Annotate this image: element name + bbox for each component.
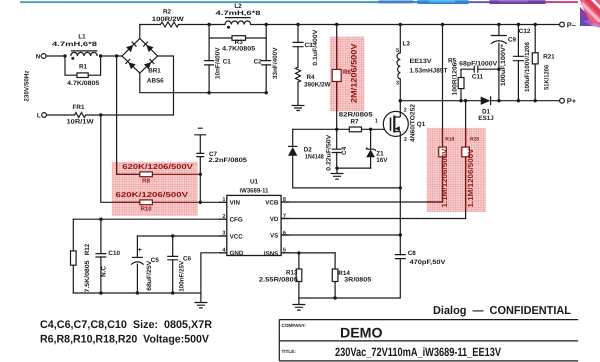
IC U1 iW3689-11 <box>219 195 289 255</box>
wire C9 branch <box>498 25 500 101</box>
svg-text:5: 5 <box>283 248 286 254</box>
wire R5 bottom stub <box>460 89 462 101</box>
wire R20 riser inside highlight <box>465 128 467 212</box>
svg-text:GND: GND <box>230 250 244 257</box>
wire VIN line <box>200 201 227 203</box>
IC pin numbers <box>222 197 286 254</box>
wire R10 to VIN node <box>152 201 200 203</box>
svg-text:VS: VS <box>270 232 278 239</box>
svg-text:3: 3 <box>404 137 407 143</box>
svg-text:16V: 16V <box>376 157 388 164</box>
svg-text:230Vac_72V110mA_iW3689-11_EE13: 230Vac_72V110mA_iW3689-11_EE13V <box>335 345 501 359</box>
svg-text:2.55R/0805: 2.55R/0805 <box>259 277 299 284</box>
svg-text:R2: R2 <box>163 9 172 16</box>
wire snubber top <box>461 69 499 77</box>
wire VS line <box>281 234 400 236</box>
earth symbol above C7 <box>194 128 206 135</box>
terminal P+ <box>560 98 565 103</box>
svg-text:R10: R10 <box>141 205 153 212</box>
wire R10 feed <box>101 115 140 202</box>
svg-text:1: 1 <box>375 119 378 125</box>
inductor L2 <box>225 18 251 29</box>
svg-text:100R/1206: 100R/1206 <box>451 62 458 96</box>
bridge diode top-right <box>146 45 153 52</box>
red highlight box R8/R10 <box>112 162 198 216</box>
ground symbol below C4/Z1 <box>331 168 344 179</box>
bridge diode bottom-right <box>144 62 151 69</box>
svg-text:8: 8 <box>283 197 286 203</box>
svg-text:1: 1 <box>222 197 225 203</box>
wire C2 branch <box>265 25 267 93</box>
svg-text:3: 3 <box>396 80 399 86</box>
capacitor C6 <box>167 256 178 259</box>
svg-text:R8: R8 <box>142 177 150 184</box>
terminal P- <box>560 22 565 27</box>
svg-text:iW3689-11: iW3689-11 <box>240 188 269 195</box>
svg-text:N.C: N.C <box>101 266 108 277</box>
resistor R1 <box>77 73 88 78</box>
svg-text:CFG: CFG <box>230 217 243 224</box>
wire D2 branch <box>293 129 401 188</box>
svg-text:4N60/TO252: 4N60/TO252 <box>409 103 416 142</box>
inductor L3 vertical <box>397 53 400 79</box>
svg-text:EE13V: EE13V <box>410 58 433 65</box>
title block <box>279 320 578 361</box>
wire L line <box>46 56 173 115</box>
wire L1 parallel branch <box>65 56 101 75</box>
svg-text:+: + <box>138 247 142 254</box>
wire GND line <box>201 253 227 293</box>
resistor R6 (highlighted) <box>332 69 341 81</box>
svg-text:2.2nF/0805: 2.2nF/0805 <box>209 157 248 164</box>
svg-text:0.1uF/400V: 0.1uF/400V <box>312 29 319 66</box>
wire R13 branch <box>298 253 300 298</box>
svg-text:1.53mHJ85T: 1.53mHJ85T <box>410 67 448 74</box>
wire C7 branch <box>199 136 201 203</box>
svg-text:6: 6 <box>283 230 286 236</box>
svg-text:C10: C10 <box>108 250 120 257</box>
svg-text:68uF/25V: 68uF/25V <box>146 260 153 291</box>
wire VD line <box>281 218 466 220</box>
wire C4 Z1 join <box>337 167 371 169</box>
wire Q1 source line <box>299 135 400 298</box>
svg-text:VD: VD <box>270 216 279 223</box>
svg-text:COMPANY:: COMPANY: <box>282 323 307 328</box>
svg-text:L2: L2 <box>234 3 242 10</box>
resistor R14 <box>332 269 338 282</box>
wire C1 branch <box>208 25 210 93</box>
svg-text:10R/1W: 10R/1W <box>67 119 94 126</box>
terminal N <box>41 54 46 59</box>
wire R12 branch <box>72 219 74 293</box>
svg-text:R12: R12 <box>84 243 91 255</box>
capacitor C5 electrolytic <box>131 257 144 264</box>
svg-text:Q1: Q1 <box>417 121 426 128</box>
svg-text:620K/1206/500V: 620K/1206/500V <box>116 190 189 199</box>
wire VCC line <box>137 235 226 237</box>
svg-text:1.1M/1206/500V: 1.1M/1206/500V <box>466 149 475 208</box>
Dialog logo top-right <box>580 0 600 28</box>
svg-text:FR1: FR1 <box>73 104 85 111</box>
zener Z1 <box>366 148 376 158</box>
svg-text:C9: C9 <box>508 37 517 44</box>
capacitor C7 <box>196 153 204 156</box>
svg-text:R20: R20 <box>470 137 479 143</box>
bridge diode top-left <box>126 45 133 52</box>
svg-text:100uF/100V/1206: 100uF/100V/1206 <box>524 42 531 92</box>
svg-text:4.7mH,6*8: 4.7mH,6*8 <box>216 10 262 17</box>
capacitor C8 <box>395 255 406 259</box>
wire R6 branch <box>336 25 338 130</box>
svg-text:82R/0805: 82R/0805 <box>339 112 373 119</box>
svg-text:390K/2W: 390K/2W <box>304 82 331 89</box>
svg-text:100nF/25V: 100nF/25V <box>179 260 186 292</box>
svg-text:100uF,100V*: 100uF,100V* <box>500 44 507 87</box>
wire bottom left rail <box>73 292 201 294</box>
svg-text:VIN: VIN <box>230 200 241 207</box>
wire bridge top riser <box>139 25 141 39</box>
svg-text:620K/1206/500V: 620K/1206/500V <box>122 162 193 171</box>
svg-text:D2: D2 <box>304 146 313 153</box>
svg-text:BR1: BR1 <box>148 68 161 75</box>
resistor R8 (highlighted) <box>140 172 153 177</box>
svg-text:P+: P+ <box>567 97 577 106</box>
svg-text:Dialog — CONFIDENTIAL: Dialog — CONFIDENTIAL <box>433 305 571 317</box>
capacitor C10 <box>95 254 106 257</box>
resistor R20 (highlighted) <box>462 147 470 157</box>
bridge diode bottom-left <box>128 62 135 69</box>
wire R3 parallel branch <box>209 37 266 39</box>
svg-text:470pF,50V: 470pF,50V <box>410 259 447 266</box>
wire C6 branch <box>172 236 174 293</box>
capacitor C12 <box>513 56 524 60</box>
wire gate line <box>293 128 390 130</box>
resistor R21 <box>532 53 538 64</box>
resistor R13 <box>296 269 302 282</box>
red highlight box R6 <box>330 37 365 112</box>
resistor R5 <box>458 78 464 89</box>
svg-text:4.7mH,6*8: 4.7mH,6*8 <box>52 41 98 48</box>
wire C10 branch <box>100 219 102 293</box>
wire output rail <box>400 100 559 102</box>
svg-text:C4,C6,C7,C8,C10 Size: 0805,X: C4,C6,C7,C8,C10 Size: 0805,X7R <box>40 319 212 331</box>
svg-text:10nF/400V: 10nF/400V <box>215 47 222 79</box>
capacitor C2 <box>261 61 271 65</box>
svg-text:C11: C11 <box>472 73 484 80</box>
svg-text:DEMO: DEMO <box>340 324 383 340</box>
wire R20 riser <box>465 101 467 219</box>
capacitor C9 electrolytic <box>491 36 507 44</box>
diode D2 <box>288 146 297 155</box>
svg-text:1N4148: 1N4148 <box>305 153 324 160</box>
svg-text:R6,R8,R10,R18,R20 Voltage:500: R6,R8,R10,R18,R20 Voltage:500V <box>40 333 210 345</box>
diode D1 <box>481 96 491 105</box>
transistor Q1 MOSFET <box>383 111 408 136</box>
resistor R3 <box>232 36 246 41</box>
svg-text:100R/2W: 100R/2W <box>152 16 184 23</box>
wire R10 feed inside highlight <box>112 201 140 203</box>
decorative top gradient bar <box>20 1 578 3</box>
svg-text:R1: R1 <box>79 64 88 71</box>
svg-text:C8: C8 <box>408 250 417 257</box>
svg-text:L: L <box>37 112 41 119</box>
svg-text:C4: C4 <box>341 146 348 155</box>
svg-text:P–: P– <box>567 20 576 29</box>
wire L3 branch <box>399 25 401 118</box>
svg-text:2: 2 <box>404 107 407 113</box>
wire ISNS line <box>281 252 335 254</box>
svg-text:U1: U1 <box>250 179 259 186</box>
svg-text:N: N <box>36 53 41 60</box>
wire R8 feed inside highlight <box>117 162 140 175</box>
wire R8 feed <box>117 56 140 174</box>
node dots <box>63 54 66 57</box>
resistor R2 zigzag <box>161 22 179 27</box>
wire R8 to C7 node <box>152 173 200 175</box>
wire R6 riser inside highlight <box>336 37 338 112</box>
capacitor C4 <box>332 149 342 152</box>
resistor R7 <box>349 127 361 132</box>
resistor R18 (highlighted) <box>439 147 447 157</box>
wire N input line <box>46 55 122 57</box>
svg-text:4.7K/0805: 4.7K/0805 <box>67 80 100 87</box>
capacitor C1 <box>204 61 214 65</box>
wire R21 branch <box>534 25 536 101</box>
svg-text:L3: L3 <box>403 40 411 47</box>
resistor R4 zigzag vertical <box>296 67 301 82</box>
svg-text:7.5K/0805: 7.5K/0805 <box>84 260 91 293</box>
svg-text:VCC: VCC <box>230 233 244 240</box>
svg-text:R21: R21 <box>543 54 555 61</box>
svg-text:R7: R7 <box>350 119 359 126</box>
wire C3 R4 branch <box>297 25 299 105</box>
wire Z1 branch <box>370 129 372 168</box>
svg-text:4.7K/0805: 4.7K/0805 <box>222 45 256 52</box>
wire C5 branch <box>136 236 138 293</box>
svg-text:VCB: VCB <box>265 199 279 206</box>
wire C4 branch <box>336 129 338 168</box>
ground symbol below R13 <box>292 298 305 310</box>
svg-text:C2: C2 <box>254 59 263 66</box>
fuse resistor FR1 zigzag <box>75 113 86 118</box>
svg-text:L1: L1 <box>78 33 86 40</box>
svg-text:5: 5 <box>396 48 399 54</box>
svg-text:ISNS: ISNS <box>264 250 278 257</box>
svg-text:C1: C1 <box>223 59 232 66</box>
svg-text:51K/1206: 51K/1206 <box>544 64 551 89</box>
svg-text:ABS6: ABS6 <box>147 78 164 85</box>
ground symbol below GND pin <box>194 293 207 308</box>
svg-text:2M/1206/500V: 2M/1206/500V <box>349 43 358 103</box>
svg-text:7: 7 <box>283 213 286 219</box>
wire VCB line <box>281 201 442 203</box>
svg-text:230V/50Hz: 230V/50Hz <box>24 70 31 101</box>
svg-text:33nF/400V: 33nF/400V <box>272 47 279 79</box>
svg-text:TITLE:: TITLE: <box>282 349 297 354</box>
bridge rectifier BR1 <box>122 39 158 74</box>
wire bottom primary rail <box>140 73 266 93</box>
svg-text:R18: R18 <box>445 137 454 143</box>
terminal L <box>42 113 47 118</box>
wire R14 branch <box>334 253 336 298</box>
svg-text:0.22uF/50V: 0.22uF/50V <box>326 134 333 171</box>
red highlight box R18/R20 <box>427 128 486 212</box>
IC pin names <box>230 199 279 257</box>
wire R18 riser inside highlight <box>427 128 443 202</box>
svg-text:ES1J: ES1J <box>478 115 494 122</box>
svg-text:3R/0805: 3R/0805 <box>344 277 372 284</box>
svg-text:3: 3 <box>222 231 225 237</box>
resistor R10 (highlighted) <box>140 200 153 205</box>
inductor L1 <box>71 51 98 60</box>
capacitor C11 <box>474 66 478 73</box>
svg-text:R4: R4 <box>307 74 316 81</box>
svg-text:68pF/1000V: 68pF/1000V <box>459 61 498 68</box>
wire C12 branch <box>517 25 519 101</box>
ground symbol below R4 <box>292 106 305 111</box>
wire R18 riser <box>442 25 444 203</box>
svg-text:1.1M/1206/500V: 1.1M/1206/500V <box>440 149 449 208</box>
wire top rail <box>140 24 560 26</box>
svg-text:2: 2 <box>222 214 225 220</box>
resistor R12 <box>71 251 77 265</box>
capacitor C3 <box>293 42 304 46</box>
svg-text:C12: C12 <box>519 28 531 35</box>
wire CFG line <box>73 218 227 220</box>
